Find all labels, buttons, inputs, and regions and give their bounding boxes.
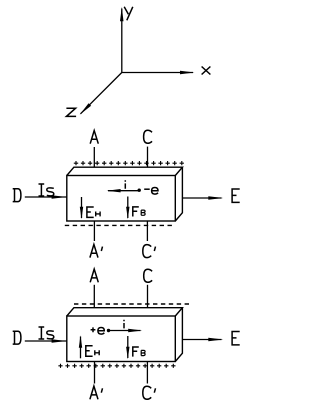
label x — [202, 67, 211, 75]
box 1 front face — [67, 176, 176, 222]
box 2 positive charge row (bottom) — [58, 364, 175, 368]
label +e (box 2) — [91, 327, 105, 334]
electrode lead C (box 2) — [147, 285, 149, 308]
electrode lead A' (box 2) — [94, 362, 96, 384]
label y — [124, 7, 133, 20]
label C (box 1) — [144, 130, 152, 143]
label Eh (box 2) — [86, 346, 99, 356]
axis x — [122, 71, 195, 74]
electrode lead A (box 1) — [93, 147, 95, 167]
label A' (box 1) — [90, 244, 103, 257]
electrode lead C' (box 1) — [146, 221, 148, 241]
label Fb (box 1) — [133, 207, 145, 217]
label D (box 2) — [13, 331, 21, 344]
current arrow i (box 1, pointing left) — [107, 189, 140, 192]
label A (box 1) — [90, 131, 98, 144]
label Is (box 1) — [39, 184, 54, 196]
Lorentz force arrow Fb (box 1, down) — [126, 197, 129, 220]
label C (box 2) — [144, 269, 152, 282]
label E (box 2) — [232, 332, 240, 345]
electrode lead C (box 1) — [147, 147, 149, 168]
electrode lead A' (box 1) — [93, 221, 95, 241]
label i (box 1) — [124, 180, 126, 189]
label A' (box 2) — [90, 386, 103, 399]
Lorentz force arrow Fb (box 2, down) — [126, 336, 129, 359]
box 2 negative charge row (top) — [74, 303, 189, 305]
current lead E with arrow (box 1) — [182, 196, 223, 200]
box 2 right face — [175, 308, 182, 362]
label A (box 2) — [90, 269, 98, 282]
label D (box 1) — [13, 189, 21, 202]
label Eh (box 1) — [87, 207, 100, 217]
Hall field arrow Eh (box 2, up) — [79, 335, 82, 358]
axis y — [120, 7, 124, 73]
label Is (box 2) — [39, 327, 54, 339]
label C' (box 1) — [143, 245, 156, 258]
Hall field arrow Eh (box 1, down) — [80, 197, 83, 219]
label Fb (box 2) — [133, 347, 145, 357]
axis z — [80, 73, 122, 115]
electrode lead A (box 2) — [93, 285, 95, 308]
label E (box 1) — [232, 189, 240, 202]
label -e (box 1) — [144, 188, 158, 195]
box 2 top face — [67, 308, 183, 316]
label C' (box 2) — [143, 386, 156, 399]
box 1 top face — [67, 167, 183, 175]
label i (box 2) — [123, 320, 125, 329]
current arrow i (box 2, pointing right) — [109, 329, 143, 332]
hole dot (box 2) — [107, 329, 110, 332]
box 1 right face — [175, 167, 182, 221]
label z — [66, 108, 76, 116]
current lead D with arrow (box 1) — [25, 195, 67, 199]
box 1 negative charge row (bottom) — [65, 224, 172, 226]
box 1 positive charge row (top) — [74, 161, 184, 165]
current lead E with arrow (box 2) — [182, 338, 223, 342]
electron dot (box 1) — [138, 189, 141, 192]
current lead D with arrow (box 2) — [25, 339, 67, 343]
electrode lead C' (box 2) — [146, 362, 148, 384]
box 2 front face — [67, 316, 176, 362]
